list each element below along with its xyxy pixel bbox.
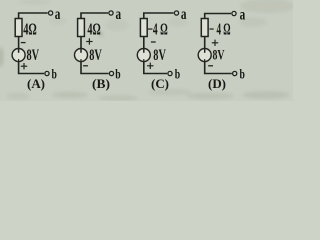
wire: source to node b (A) [19,62,44,74]
node a terminal (A) [49,11,53,15]
svg-text:8V: 8V [153,47,166,64]
paper background mottling [0,0,296,101]
svg-text:8V: 8V [27,47,40,64]
svg-text:−4 Ω: −4 Ω [148,19,168,38]
label b (C) [175,68,181,83]
wire: resistor to source (D) [204,37,206,49]
resistor −4 Ω (C) [140,19,147,37]
label − polarity bottom (D) [208,65,213,67]
node a terminal (B) [109,11,113,15]
label (C) [151,76,169,91]
node a terminal (D) [232,11,236,15]
label − polarity bottom (B) [83,65,88,67]
svg-text:(C): (C) [151,76,169,91]
wire: resistor to source (B) [80,37,82,49]
label + polarity bottom (A) [21,63,27,69]
svg-text:4Ω: 4Ω [87,19,100,38]
label b (B) [115,68,121,83]
wire: top lead to node a (B) [81,13,108,19]
label − polarity top (A) [21,42,26,44]
svg-text:b: b [240,68,246,83]
label 8V (B) [89,47,102,64]
wire: source to node b (D) [205,62,232,74]
svg-text:− 4 Ω: − 4 Ω [209,19,231,38]
node b terminal (D) [233,71,237,75]
wire: resistor to source (C) [143,37,145,49]
svg-text:b: b [52,68,58,83]
label (B) [92,76,110,91]
svg-text:4Ω: 4Ω [23,19,37,38]
voltage source 8V (B) [75,49,88,62]
label (A) [27,76,45,91]
label + polarity bottom (C) [147,63,153,69]
svg-text:a: a [240,7,246,24]
node b terminal (B) [109,71,113,75]
wire: source to node b (C) [144,62,167,74]
label − 4 Ω (D) [209,19,231,38]
label − polarity top (C) [151,41,156,43]
resistor 4Ω (A) [15,19,22,37]
svg-text:(D): (D) [208,76,226,91]
label a (B) [116,6,122,23]
svg-text:a: a [116,6,122,23]
label + polarity top (D) [212,40,218,46]
label a (A) [55,6,61,23]
resistor 4Ω (B) [78,19,85,37]
label + polarity top (B) [86,38,92,44]
svg-text:8V: 8V [213,48,225,64]
svg-text:a: a [181,6,187,23]
wire: resistor to source (A) [18,37,20,49]
voltage source 8V (C) [137,49,150,62]
label (D) [208,76,226,91]
node a terminal (C) [174,11,178,15]
label 8V (C) [153,47,166,64]
label b (A) [52,68,58,83]
wire: top lead to node a (D) [205,14,231,19]
svg-text:8V: 8V [89,47,102,64]
svg-text:a: a [55,6,61,23]
label a (C) [181,6,187,23]
label 8V (A) [27,47,40,64]
label 4Ω (B) [87,19,100,38]
label 4Ω (A) [23,19,37,38]
label 8V (D) [213,48,225,64]
node b terminal (C) [168,71,172,75]
label a (D) [240,7,246,24]
label −4 Ω (C) [148,19,168,38]
voltage source 8V (D) [198,49,211,62]
label b (D) [240,68,246,83]
resistor − 4 Ω (D) [201,19,208,37]
svg-text:(A): (A) [27,76,45,91]
svg-text:(B): (B) [92,76,110,91]
wire: source to node b (B) [81,62,109,74]
svg-text:b: b [175,68,181,83]
svg-text:b: b [115,68,121,83]
node b terminal (A) [45,71,49,75]
wire: top lead to node a (A) [19,13,48,19]
voltage source 8V (A) [12,49,25,62]
wire: top lead to node a (C) [144,13,174,19]
